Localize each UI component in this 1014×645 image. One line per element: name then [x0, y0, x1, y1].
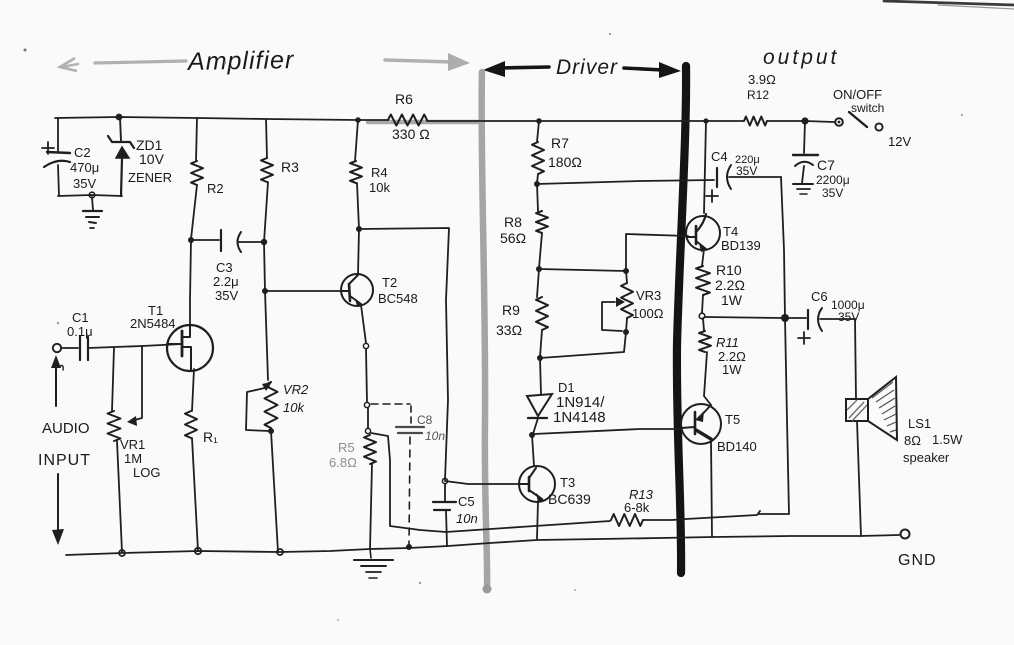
label speaker [903, 450, 950, 465]
label T4 part [721, 238, 761, 253]
svg-text:AUDIO: AUDIO [42, 420, 90, 437]
transistor T4 BD139 [686, 214, 720, 252]
svg-text:10k: 10k [283, 400, 305, 415]
svg-text:ON/OFF: ON/OFF [833, 87, 882, 102]
label R4 [371, 165, 388, 180]
label R10 [716, 262, 742, 278]
svg-text:35V: 35V [73, 176, 96, 191]
svg-text:switch: switch [851, 101, 884, 115]
svg-text:BC639: BC639 [548, 491, 591, 507]
gray arrow pointing right (amplifier span) [385, 53, 470, 71]
svg-text:10V: 10V [139, 151, 165, 167]
gray arrow pointing left (amplifier span) [60, 58, 186, 71]
wire R10 to output node [702, 295, 703, 313]
wire R4 node to right then down to C5 node [359, 228, 449, 480]
svg-text:10k: 10k [369, 180, 390, 195]
svg-text:R7: R7 [551, 135, 569, 151]
wire R8/R9 node to VR3 column [539, 269, 626, 271]
input squiggle [60, 366, 63, 371]
wire R9 node to D1 [540, 358, 541, 394]
svg-text:VR3: VR3 [636, 288, 661, 303]
label T3 [560, 475, 575, 490]
svg-text:470μ: 470μ [70, 160, 99, 175]
driver arrow right half [624, 62, 681, 78]
wire VR1 to ground rail [117, 441, 122, 552]
audio input down arrow [52, 474, 64, 545]
section title output [763, 46, 839, 69]
label VR2 value [283, 400, 305, 415]
svg-text:BD139: BD139 [721, 238, 761, 253]
wire C6 to speaker [855, 319, 856, 399]
wire T1 source down [192, 369, 194, 411]
wire R9 top [537, 269, 539, 297]
label ZD1 voltage [139, 151, 165, 167]
label D1 part b [553, 409, 606, 426]
wire T5 collector to ground rail [711, 439, 712, 537]
wire C5 stub [444, 484, 446, 501]
wire rail to C2 [57, 118, 59, 151]
svg-text:R4: R4 [371, 165, 388, 180]
label C1 [72, 310, 89, 325]
svg-text:speaker: speaker [903, 450, 950, 465]
black marker divider line (driver/output) [677, 66, 686, 573]
ground symbol mid [354, 549, 393, 578]
svg-text:R5: R5 [338, 440, 355, 455]
label T3 part [548, 491, 591, 507]
svg-text:1M: 1M [124, 451, 142, 466]
label C7 voltage [822, 186, 843, 200]
label R10 wattage [721, 292, 743, 308]
label INPUT [38, 452, 91, 469]
svg-text:12V: 12V [888, 134, 911, 149]
label C2 value [70, 160, 99, 175]
wire VR3 column up and to T4 base [626, 234, 688, 271]
transistor T1 2N5484 JFET [167, 325, 213, 371]
svg-text:1N4148: 1N4148 [553, 409, 606, 426]
wire C5 node to T3 base [445, 481, 519, 484]
node dot rail VR1 [119, 550, 125, 556]
resistor R2 [191, 161, 203, 185]
label C7 [817, 157, 835, 173]
svg-text:LOG: LOG [133, 465, 160, 480]
node dot R8/R9 [536, 266, 542, 272]
wire R11 top [703, 318, 704, 331]
resistor R12 [744, 117, 767, 126]
wire R7/R8 node to C4 [537, 180, 714, 184]
wire C4 to output node [781, 177, 785, 318]
svg-text:35V: 35V [822, 186, 843, 200]
svg-text:T5: T5 [725, 412, 740, 427]
section title Driver [556, 56, 618, 79]
junction ring ground node [89, 192, 95, 198]
label R5 value [329, 455, 357, 470]
wire D1 node to T5 base [534, 429, 681, 434]
label C3 voltage [215, 288, 238, 303]
svg-text:1W: 1W [721, 292, 743, 308]
label R13 value [624, 500, 650, 515]
wire R4 to T2 collector node [357, 183, 359, 229]
label GND [898, 552, 937, 569]
svg-text:1W: 1W [722, 362, 742, 377]
C4 plus sign [706, 190, 718, 202]
label VR2 [283, 382, 309, 397]
label C4 voltage [736, 164, 757, 178]
wire T4 emitter to R10 [702, 249, 704, 266]
svg-text:180Ω: 180Ω [548, 154, 582, 170]
wire ground rail [66, 535, 899, 555]
capacitor C2 plus sign [42, 142, 54, 154]
label C5 [458, 494, 475, 509]
label speaker impedance [904, 433, 921, 448]
label ZENER [128, 170, 172, 185]
svg-text:Amplifier: Amplifier [186, 46, 295, 76]
label T2 part [378, 291, 418, 306]
svg-text:56Ω: 56Ω [500, 230, 526, 246]
wire C2 to bottom [58, 165, 59, 196]
node dot C3 right [261, 239, 267, 245]
label R7 [551, 135, 569, 151]
node dot VR3 bottom [623, 329, 629, 335]
svg-text:R11: R11 [716, 335, 739, 350]
label R6 [395, 91, 413, 107]
capacitor C7 [793, 155, 818, 183]
speaker LS1 [846, 377, 897, 440]
svg-text:2.2μ: 2.2μ [213, 274, 239, 289]
label R8 [504, 214, 522, 230]
node dot output [781, 314, 789, 322]
node dot R7/R8 [534, 181, 540, 187]
wire R8 to node [539, 233, 542, 268]
label R6 value [392, 126, 430, 142]
node dot rail R1 [195, 548, 201, 554]
wire R9 to node [540, 330, 542, 357]
svg-text:INPUT: INPUT [38, 452, 91, 469]
potentiometer VR1 [108, 411, 121, 441]
label R1 [203, 429, 218, 445]
junction ring C5 top [442, 478, 447, 483]
label C8 [417, 413, 433, 427]
wire R7 to node [537, 174, 538, 183]
resistor R7 [532, 142, 544, 174]
svg-text:GND: GND [898, 552, 937, 569]
label VR3 [636, 288, 661, 303]
svg-text:C4: C4 [711, 149, 728, 164]
resistor R1 [185, 411, 197, 438]
wire C1 to VR1 [112, 348, 114, 411]
junction ring C8 tap [364, 402, 369, 407]
svg-text:C3: C3 [216, 260, 233, 275]
capacitor C1 [61, 336, 182, 360]
wire top supply rail left segment [55, 117, 388, 120]
wire emitter segment [366, 349, 367, 402]
label C7 value [816, 173, 850, 187]
capacitor C6 [808, 308, 855, 331]
label R2 [207, 181, 224, 196]
svg-text:R12: R12 [747, 88, 769, 102]
input terminal [53, 344, 61, 352]
svg-text:VR1: VR1 [120, 437, 145, 452]
svg-text:VR2: VR2 [283, 382, 309, 397]
label R4 value [369, 180, 390, 195]
transistor T5 BD140 [681, 404, 721, 444]
svg-text:330 Ω: 330 Ω [392, 126, 430, 142]
audio input up arrow [51, 355, 61, 406]
zener diode ZD1 [108, 117, 134, 196]
node dot at C7 tap [801, 117, 808, 124]
svg-text:6.8Ω: 6.8Ω [329, 455, 357, 470]
svg-text:C1: C1 [72, 310, 89, 325]
capacitor C5 [433, 502, 456, 546]
wire T2 base [265, 290, 342, 292]
wire R5 to ground rail [370, 464, 372, 549]
label R9 value [496, 322, 522, 338]
svg-text:ZENER: ZENER [128, 170, 172, 185]
svg-text:LS1: LS1 [908, 416, 931, 431]
label D1 part a [556, 394, 605, 411]
svg-text:output: output [763, 46, 839, 69]
wire R13 to output node riser [643, 318, 789, 520]
node dot C3 left [188, 237, 194, 243]
wire R3 to T2 base node [264, 182, 268, 291]
resistor R11 [699, 331, 711, 352]
potentiometer VR2 [265, 382, 278, 428]
wire feedback from T2 emitter [371, 433, 610, 532]
wire output node horizontal [705, 317, 783, 318]
svg-text:8Ω: 8Ω [904, 433, 921, 448]
label R11 value [718, 349, 746, 364]
svg-text:R9: R9 [502, 302, 520, 318]
svg-text:C2: C2 [74, 145, 91, 160]
C6 plus sign [798, 332, 810, 344]
resistor R7 wire from rail [537, 121, 539, 142]
label ZD1 [136, 137, 163, 153]
ground symbol C7 [793, 184, 813, 194]
svg-text:35V: 35V [215, 288, 238, 303]
label R12 value [748, 72, 776, 87]
svg-text:R₁: R₁ [203, 429, 218, 445]
wire top supply rail middle segment [427, 120, 744, 122]
resistor R6 [388, 115, 427, 126]
label C3 value [213, 274, 239, 289]
wire R2 to C3 node [191, 185, 197, 239]
junction ring R10/R11 [699, 313, 705, 319]
wire T3 emitter to ground rail [537, 501, 538, 539]
node dot R9/D1 [537, 355, 543, 361]
label C2 voltage [73, 176, 96, 191]
svg-text:R8: R8 [504, 214, 522, 230]
VR2 bracket wiper [246, 382, 272, 431]
resistor R4 wire from rail [355, 120, 358, 161]
label C6 value [831, 298, 865, 312]
svg-text:100Ω: 100Ω [632, 306, 664, 321]
resistor R8 [536, 211, 548, 233]
wire top rail to switch [767, 121, 834, 122]
wire C7 from rail [804, 121, 805, 153]
wire R1 to ground rail [192, 438, 198, 551]
wire emitter segment 2 [367, 408, 369, 428]
VR3 bracket wiper [602, 297, 625, 331]
svg-text:2.2Ω: 2.2Ω [715, 277, 745, 293]
label R11 wattage [722, 362, 742, 377]
label C2 [74, 145, 91, 160]
gray marker divider line (amplifier/driver) [368, 72, 492, 594]
label VR3 value [632, 306, 664, 321]
label VR1 value [124, 451, 142, 466]
wire VR3 bottom to R9 node [540, 318, 627, 358]
GND terminal [901, 530, 910, 539]
svg-text:6-8k: 6-8k [624, 500, 650, 515]
svg-text:C8: C8 [417, 413, 433, 427]
wire output node to C6 [789, 317, 806, 319]
svg-text:1.5W: 1.5W [932, 432, 963, 447]
node dot rail VR2 [277, 549, 283, 555]
resistor R13 [611, 514, 643, 526]
switch SW1 terminal 2 [875, 123, 882, 130]
capacitor C2 [44, 152, 70, 167]
wire VR2 to ground rail [271, 431, 278, 552]
label T5 part [717, 439, 757, 454]
svg-text:R2: R2 [207, 181, 224, 196]
resistor R4 [350, 161, 362, 183]
label R3 [281, 159, 299, 175]
svg-text:T2: T2 [382, 275, 397, 290]
svg-text:0.1μ: 0.1μ [67, 324, 93, 339]
label C5 value [456, 511, 478, 526]
diode D1 [527, 394, 552, 434]
svg-text:Driver: Driver [556, 56, 618, 79]
svg-text:2200μ: 2200μ [816, 173, 850, 187]
svg-text:2N5484: 2N5484 [130, 316, 176, 331]
svg-text:BC548: BC548 [378, 291, 418, 306]
label VR1 [120, 437, 145, 452]
label D1 [558, 380, 575, 395]
junction ring feedback tap [365, 428, 370, 433]
resistor R3 wire from rail [266, 119, 267, 158]
label R9 [502, 302, 520, 318]
svg-text:C6: C6 [811, 289, 828, 304]
resistor R2 wire from rail [196, 118, 197, 161]
svg-text:R10: R10 [716, 262, 742, 278]
svg-text:R3: R3 [281, 159, 299, 175]
svg-text:10n: 10n [456, 511, 478, 526]
wire R8 top [537, 184, 538, 211]
wire speaker to ground rail [857, 421, 861, 536]
svg-text:R6: R6 [395, 91, 413, 107]
VR1 wiper arrow [127, 346, 142, 426]
label VR1 taper [133, 465, 160, 480]
resistor R3 [261, 158, 273, 182]
svg-text:BD140: BD140 [717, 439, 757, 454]
capacitor C3 [191, 230, 264, 252]
label R11 [716, 335, 739, 350]
svg-text:C7: C7 [817, 157, 835, 173]
label R5 [338, 440, 355, 455]
node dot C8 ground [406, 544, 412, 550]
node dot VR2 bottom [268, 428, 274, 434]
svg-text:T3: T3 [560, 475, 575, 490]
svg-text:C5: C5 [458, 494, 475, 509]
label C6 [811, 289, 828, 304]
switch SW1 lever [849, 112, 867, 127]
scan artifact line top right [884, 1, 1014, 9]
label C8 value [425, 429, 445, 443]
label C6 voltage [838, 310, 859, 324]
node dot R7 top [536, 118, 542, 124]
wire T2 base node down to VR2 [265, 291, 268, 380]
resistor R9 [536, 297, 548, 330]
wire C2/ZD1 bottom link [58, 195, 122, 196]
capacitor C4 [717, 165, 781, 189]
label T5 [725, 412, 740, 427]
resistor R10 [696, 266, 710, 295]
label R10 value [715, 277, 745, 293]
switch SW1 terminal 1 [835, 118, 843, 126]
node dot T2 collector [356, 226, 362, 232]
label T4 [723, 224, 738, 239]
label C3 [216, 260, 233, 275]
ground symbol power section [83, 197, 102, 228]
label R13 [629, 487, 654, 502]
svg-text:3.9Ω: 3.9Ω [748, 72, 776, 87]
wire rail to T4 collector [703, 118, 708, 213]
svg-text:10n: 10n [425, 429, 445, 443]
label switch [851, 101, 884, 115]
capacitor C8 dashed link [371, 404, 424, 545]
svg-text:33Ω: 33Ω [496, 322, 522, 338]
label AUDIO [42, 420, 90, 437]
potentiometer VR3 [621, 271, 633, 318]
node dot T2 base [262, 288, 268, 294]
wire C3 node to T1 drain [190, 240, 191, 326]
svg-text:D1: D1 [558, 380, 575, 395]
driver double-headed arrow left half [483, 61, 549, 77]
label 12V [888, 134, 911, 149]
wire D1 node to T3 collector [532, 435, 534, 466]
transistor T2 BC548 [341, 274, 373, 306]
label T1 [148, 303, 163, 318]
svg-text:35V: 35V [838, 310, 859, 324]
label T2 [382, 275, 397, 290]
label ON/OFF [833, 87, 882, 102]
node dot VR3 top tap [623, 268, 629, 274]
label C1 value [67, 324, 93, 339]
label T1 part [130, 316, 176, 331]
wire R11 to T5 emitter [704, 352, 711, 405]
junction ring T2 emitter upper [363, 343, 368, 348]
wire T2 collector up [358, 229, 359, 275]
node dot R4 top [355, 117, 361, 123]
node dot D1 cathode [529, 432, 535, 438]
label R7 value [548, 154, 582, 170]
section title Amplifier [186, 46, 295, 76]
resistor R5 [364, 435, 376, 464]
label C4 [711, 149, 728, 164]
label R8 value [500, 230, 526, 246]
svg-text:35V: 35V [736, 164, 757, 178]
label speaker wattage [932, 432, 963, 447]
node dot ZD1 top [116, 114, 123, 121]
label C4 value [735, 154, 760, 166]
label LS1 [908, 416, 931, 431]
wire T2 emitter down [361, 305, 366, 343]
label R12 [747, 88, 769, 102]
svg-text:T4: T4 [723, 224, 738, 239]
transistor T3 BC639 [519, 466, 555, 502]
